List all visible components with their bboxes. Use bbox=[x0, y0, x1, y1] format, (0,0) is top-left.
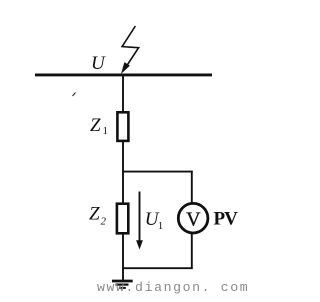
svg-text:U: U bbox=[91, 53, 106, 74]
svg-text:Z: Z bbox=[90, 115, 101, 136]
svg-text:V: V bbox=[186, 208, 201, 230]
impedance Z2 box bbox=[117, 204, 128, 234]
stray tick mark bbox=[73, 93, 76, 97]
wire: top branch to voltmeter bbox=[122, 171, 193, 173]
svg-text:2: 2 bbox=[101, 216, 107, 228]
arrow U1 (voltage arrow) bbox=[136, 192, 143, 250]
bus bar bbox=[35, 73, 212, 76]
voltmeter PV circle bbox=[178, 203, 208, 233]
svg-text:1: 1 bbox=[158, 220, 164, 232]
svg-text:PV: PV bbox=[214, 209, 239, 230]
svg-text:1: 1 bbox=[103, 125, 109, 137]
wire: branch down to voltmeter top bbox=[191, 171, 193, 203]
wire: Z1 to Z2 bbox=[122, 142, 124, 203]
svg-text:Z: Z bbox=[89, 204, 100, 225]
wire: voltmeter bottom to bottom wire bbox=[191, 233, 193, 269]
bottom wire bbox=[122, 267, 193, 269]
wire: bus to Z1 bbox=[122, 76, 124, 112]
impedance Z1 box bbox=[117, 112, 128, 141]
wire: Z2 bottom to ground node bbox=[122, 233, 124, 280]
svg-text:www.diangon. com: www.diangon. com bbox=[97, 280, 249, 295]
ground bbox=[112, 281, 133, 288]
lightning arrow (surge stroke) bbox=[122, 26, 139, 73]
